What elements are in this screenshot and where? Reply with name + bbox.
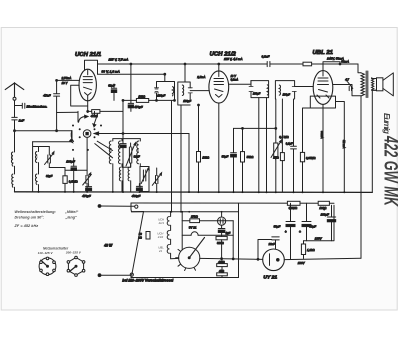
svg-text:21/1: 21/1: [158, 221, 165, 225]
mains switch lever: [98, 212, 143, 277]
capacitor 100uF electrolytic: [66, 158, 76, 192]
output transformer T1 primary: [341, 60, 364, 96]
svg-text:UCH 21/1: UCH 21/1: [75, 52, 101, 58]
capacitor block (antenna trimmer): [15, 103, 25, 108]
IF transformer 1 cell2: [178, 82, 193, 105]
svg-text:115 V, 7,5 mA: 115 V, 7,5 mA: [109, 57, 129, 61]
svg-text:kΩ: kΩ: [138, 235, 141, 239]
svg-text:100pF: 100pF: [283, 94, 291, 97]
trimmer C-T1: [45, 152, 55, 168]
svg-text:0,2mA: 0,2mA: [231, 78, 239, 81]
voltage selector rotary: [176, 238, 205, 271]
mains selector switch 220V: [67, 256, 85, 276]
wire: [49, 167, 65, 169]
texts bottom left: [14, 210, 82, 255]
svg-text:Blockkondens.: Blockkondens.: [27, 105, 48, 109]
mains input line top: [98, 205, 138, 209]
wire diagonal to osc coils: [95, 141, 113, 158]
svg-text:50kΩ: 50kΩ: [247, 155, 255, 159]
wire heater risers: [172, 101, 182, 212]
capacitor lamp bypass: [218, 229, 230, 237]
capacitor 6.8nF series: [262, 55, 270, 67]
capacitor 100uF: [321, 205, 336, 241]
resistor 480: [217, 259, 228, 267]
wire right power column: [238, 203, 240, 277]
svg-text:UY 21: UY 21: [263, 275, 277, 281]
resistor 1M diode load: [273, 99, 284, 192]
resistor 0.5M: [63, 168, 79, 193]
wire cathode column: [122, 100, 124, 192]
svg-text:480Ω: 480Ω: [218, 260, 225, 264]
coil L5c: [128, 167, 129, 181]
wire B+ to rectifier: [360, 96, 362, 258]
svg-text:60mA: 60mA: [320, 131, 324, 139]
wire coupling line: [15, 131, 73, 142]
wire grid line: [57, 111, 78, 113]
svg-text:422 GW MK: 422 GW MK: [380, 135, 400, 206]
wave band switch S1 (starburst): [70, 111, 102, 170]
resistor 50k: [241, 128, 255, 192]
wire IF2 returns: [259, 98, 267, 192]
transformer core: [366, 71, 368, 98]
svg-text:21: 21: [158, 249, 163, 253]
svg-text:80 V, 1,8 mA: 80 V, 1,8 mA: [102, 69, 120, 73]
coil value labels: [10, 148, 139, 176]
tube UCH21/1: [79, 69, 96, 101]
switch bottom spoke: [86, 138, 88, 171]
svg-text:115 V, 4,5 mA: 115 V, 4,5 mA: [224, 57, 243, 61]
grid loop: [71, 85, 88, 106]
capacitor 50pF: [222, 128, 237, 192]
svg-text:50µF: 50µF: [222, 154, 229, 158]
capacitor 400uF bus: [132, 184, 143, 199]
svg-text:UBL: UBL: [158, 246, 164, 250]
potentiometer 0.5M volume: [271, 99, 290, 192]
wire: [188, 134, 190, 193]
resistor 27k: [182, 212, 233, 250]
coil IF1a: [173, 87, 174, 96]
svg-text:53mA: 53mA: [341, 60, 349, 64]
wire osc tops: [113, 139, 141, 141]
coil L1a: [11, 152, 12, 166]
wire tube2 top: [218, 64, 220, 71]
tube UY21 heater: [182, 225, 233, 235]
IF transformer 2 cellA: [249, 81, 269, 98]
svg-text:32pF: 32pF: [46, 174, 53, 178]
wire: [39, 147, 50, 175]
trimmer C-T3: [126, 143, 140, 168]
wire 135V node: [304, 205, 335, 241]
wire to tube2 grid: [190, 90, 209, 92]
capacitor electrolytic mid: [120, 144, 126, 148]
wire tube3 grid: [295, 86, 314, 88]
capacitor 0.1uF: [286, 99, 297, 192]
wire lever bottom: [130, 275, 132, 278]
svg-text:600: 600: [10, 155, 13, 160]
IF transformer 2 cellB: [275, 81, 296, 99]
wire rectifier out: [284, 258, 361, 259]
svg-text:10kΩ: 10kΩ: [138, 94, 146, 98]
svg-text:200–225 V: 200–225 V: [65, 251, 82, 255]
wire plate line: [123, 99, 157, 101]
wire: [14, 120, 16, 152]
svg-text:UCH: UCH: [158, 218, 164, 222]
svg-text:110–125 V: 110–125 V: [38, 251, 54, 255]
rectifier UY21: [263, 249, 285, 271]
svg-text:100pF: 100pF: [253, 92, 261, 95]
diode box: [310, 96, 335, 108]
capacitor 470uF electrolytic: [128, 64, 143, 111]
coil L6: [137, 141, 139, 164]
wire anode riser: [250, 81, 252, 85]
power bottom rail: [131, 277, 239, 279]
coil L2: [35, 152, 36, 163]
coil L1b: [12, 174, 13, 187]
capacitor 50uF a: [274, 203, 295, 259]
coil L5: [119, 141, 121, 164]
wire: [33, 142, 50, 192]
coil IF2a: [267, 85, 268, 95]
svg-text:47nF: 47nF: [43, 94, 51, 98]
switch contact line top right: [94, 114, 98, 125]
output transformer T1 secondary: [372, 78, 374, 90]
wire tube2 cathode down: [218, 103, 220, 192]
svg-text:6,8nF: 6,8nF: [262, 55, 270, 59]
capacitor 470uF bus: [82, 184, 91, 198]
heater line: [132, 211, 239, 213]
resistor series rail: [303, 62, 312, 66]
wire tube1 top cap: [85, 60, 98, 74]
wire AVC line: [234, 127, 276, 129]
wire: [38, 185, 40, 192]
svg-text:Eumig: Eumig: [382, 113, 392, 134]
heater chain: [167, 212, 179, 259]
svg-text:56: 56: [139, 232, 142, 236]
svg-text:470µF: 470µF: [134, 105, 142, 109]
svg-text:100pF: 100pF: [157, 94, 165, 98]
svg-text:0,5MΩ: 0,5MΩ: [69, 180, 79, 184]
coil IF1b: [182, 85, 183, 96]
resistor 820: [216, 236, 227, 258]
svg-text:400µF: 400µF: [132, 194, 141, 198]
wire anode to transformer: [333, 85, 361, 96]
svg-text:47kΩ: 47kΩ: [91, 114, 99, 118]
chassis bus: [15, 191, 373, 194]
resistor 10k: [136, 94, 148, 102]
svg-text:135V: 135V: [315, 237, 323, 241]
coil L4: [109, 141, 111, 164]
wire tube3 top: [323, 62, 340, 71]
wire anode rail A: [98, 63, 359, 65]
trimmer C-T2: [83, 170, 92, 192]
capacitor 62pF: [108, 83, 116, 100]
antenna: [5, 83, 24, 101]
svg-text:27kΩ: 27kΩ: [190, 214, 199, 218]
wire antenna down: [14, 100, 16, 117]
wire switch top: [131, 203, 144, 212]
IF transformer 1: [155, 82, 175, 101]
wire: [122, 163, 131, 192]
capacitor 47nF: [43, 80, 59, 130]
svg-text:52 mA: 52 mA: [342, 140, 346, 148]
svg-text:100pF: 100pF: [183, 99, 191, 103]
svg-text:600: 600: [136, 148, 139, 153]
svg-text:0,1µF: 0,1µF: [286, 143, 293, 146]
svg-text:22nF: 22nF: [268, 242, 276, 246]
wire tube2 anode: [229, 83, 251, 85]
resistor 10k cathode: [197, 105, 211, 192]
power rail P1: [131, 202, 334, 204]
svg-text:+: +: [285, 230, 287, 234]
capacitor 4.7nF: [345, 77, 353, 90]
speaker LS: [372, 73, 394, 192]
junction dots on bus: [38, 191, 346, 193]
wire grid feed: [57, 79, 80, 81]
wire IF cell2 feed: [184, 64, 186, 82]
resistor 45: [217, 267, 228, 278]
svg-text:820Ω: 820Ω: [217, 241, 224, 245]
svg-text:100V: 100V: [298, 261, 306, 265]
svg-text:0,5 MΩ: 0,5 MΩ: [279, 135, 289, 139]
svg-text:+: +: [299, 230, 301, 234]
tube UCH21/2: [209, 71, 229, 103]
pilot lamp: [218, 212, 226, 229]
resistor 47k: [88, 110, 123, 118]
heater chain tube labels: [157, 218, 165, 253]
switch top risers: [78, 111, 95, 122]
svg-text:ZF = 452 kHz: ZF = 452 kHz: [14, 224, 39, 228]
svg-text:50µF: 50µF: [309, 224, 316, 228]
wire 52mA branch: [336, 102, 345, 193]
resistor 56k: [138, 232, 150, 240]
wire ladder right rail: [232, 221, 234, 259]
svg-text:600: 600: [109, 148, 112, 153]
resistor 1.2k: [298, 241, 316, 265]
svg-text:2,75mA: 2,75mA: [61, 76, 72, 80]
svg-text:32µF: 32µF: [134, 155, 141, 159]
wire: [65, 169, 87, 171]
svg-text:1,2kΩ: 1,2kΩ: [307, 248, 315, 252]
svg-text:50µF: 50µF: [274, 224, 281, 228]
svg-text:bei 110–200V Vorschaltdrossel: bei 110–200V Vorschaltdrossel: [122, 279, 173, 283]
svg-text:2,5mA: 2,5mA: [196, 75, 205, 79]
wire selector to rectifier: [200, 258, 263, 259]
svg-text:45Ω: 45Ω: [219, 269, 224, 273]
svg-text:UBL 21: UBL 21: [313, 50, 334, 56]
svg-text:+: +: [323, 207, 325, 211]
coil IF2b: [279, 85, 280, 95]
wire osc bottoms: [113, 164, 141, 192]
svg-text:100µF: 100µF: [321, 212, 329, 216]
switch wiper arc left: [71, 131, 73, 142]
wire: [14, 166, 16, 192]
resistor 0.05M: [300, 108, 315, 192]
svg-text:10kΩ: 10kΩ: [202, 155, 210, 159]
svg-text:43 W: 43 W: [103, 243, 113, 247]
svg-text:600: 600: [118, 171, 121, 176]
wire tube1 cathode down: [87, 95, 89, 112]
svg-text:470µF: 470µF: [82, 194, 91, 198]
tube UBL21: [313, 71, 333, 105]
capacitor 1nF (antenna series): [12, 117, 25, 122]
svg-text:600: 600: [34, 154, 37, 159]
coil L5b: [119, 167, 120, 181]
coil L3: [35, 174, 36, 185]
svg-text:Wellenschalterstellung: „Mitte: Wellenschalterstellung: „Mittel“: [15, 210, 79, 214]
svg-text:4,7: 4,7: [345, 77, 349, 81]
svg-text:1µF: 1µF: [226, 231, 231, 235]
trimmer C-T5: [152, 168, 161, 192]
svg-text:21/2: 21/2: [157, 235, 164, 239]
svg-text:UCH: UCH: [157, 232, 163, 236]
mains selector switch 110V: [39, 257, 56, 275]
wire screen rail B: [98, 74, 165, 81]
wire oscillator line with arrow: [94, 132, 189, 135]
wire tube3 cathode down: [322, 104, 324, 192]
capacitor 50uF b: [299, 203, 316, 241]
padder box: [140, 167, 149, 192]
capacitor 22nF: [258, 237, 279, 259]
switch wiper arc top: [79, 116, 86, 122]
svg-text:10 V: 10 V: [62, 81, 68, 85]
resistor 6.8k on rail: [287, 201, 300, 210]
svg-text:0,05MΩ: 0,05MΩ: [306, 156, 315, 160]
svg-text:UY 21: UY 21: [189, 225, 197, 229]
resistor 120 on rail: [318, 201, 329, 210]
